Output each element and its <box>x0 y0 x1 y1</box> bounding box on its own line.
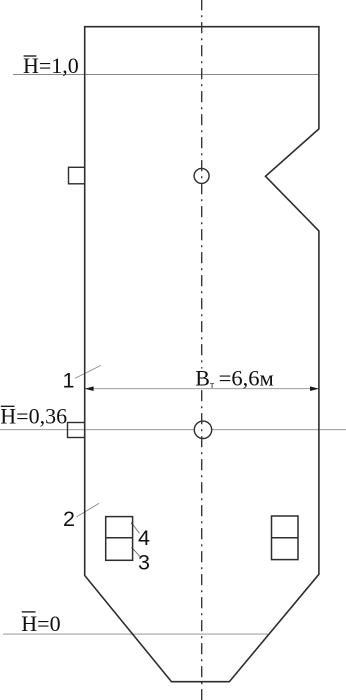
leader dot at burner edge (4) <box>131 522 133 524</box>
wall port at level 0,36 <box>68 423 85 438</box>
dimension line Bт=6,6м <box>85 388 319 390</box>
svg-text:1: 1 <box>63 369 75 393</box>
leader line to label 2 <box>77 503 100 516</box>
measurement port circle upper <box>194 168 209 183</box>
level line H=0,36 <box>0 429 346 431</box>
dimension arrowhead right <box>310 386 319 391</box>
dimension arrowhead left <box>85 386 94 391</box>
level line H=0 <box>3 633 268 635</box>
svg-text:4: 4 <box>138 526 150 550</box>
label Bт=6,6м (white backing hides centerline) <box>195 369 276 388</box>
svg-text:H=0,36: H=0,36 <box>0 404 67 429</box>
overline of H=0,36 <box>1 405 15 407</box>
leader dot at burner edge (3) <box>131 547 133 549</box>
leader line to label 1 <box>75 365 101 378</box>
svg-text:В: В <box>195 365 210 390</box>
overline of H=0 <box>22 611 36 613</box>
leader line to label 3 <box>132 548 140 557</box>
svg-text:H=0: H=0 <box>21 611 60 636</box>
furnace outline <box>85 27 319 682</box>
svg-text:2: 2 <box>63 507 75 531</box>
svg-text:3: 3 <box>138 550 150 574</box>
level line H=1,0 <box>13 74 319 76</box>
svg-text:=6,6м: =6,6м <box>219 365 274 390</box>
burner block left (rows 4 over 3) <box>106 517 133 561</box>
leader line to label 4 <box>132 523 140 533</box>
measurement port circle lower <box>194 421 211 438</box>
burner block right <box>272 516 299 560</box>
overline of H=1,0 <box>24 55 37 57</box>
wall port upper left <box>69 167 85 184</box>
furnace centerline (dash-dot axis) <box>201 0 203 700</box>
svg-text:H=1,0: H=1,0 <box>23 53 79 78</box>
